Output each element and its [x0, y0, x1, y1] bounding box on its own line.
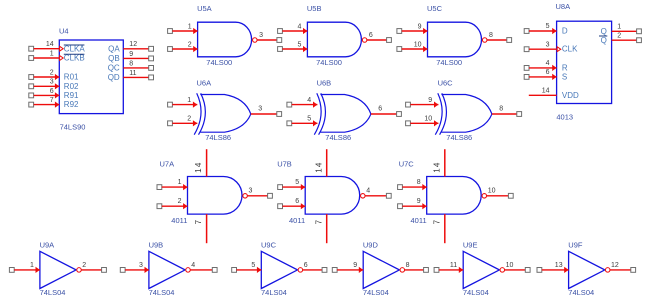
inverter U9D body [363, 251, 399, 288]
power wire U7C pin 7 (bottom) [444, 214, 446, 243]
wire U7B input pin 6 [278, 203, 306, 209]
wire U9C output pin 6 [303, 268, 327, 273]
wire U7B input pin 5 [278, 184, 306, 190]
wire U6B input pin 5 [287, 120, 318, 126]
output bubble U9C [298, 268, 303, 273]
svg-text:11: 11 [450, 262, 457, 269]
svg-text:7: 7 [314, 219, 323, 225]
IC U8A 4013 body [557, 21, 612, 103]
wire U5A input pin 1 [168, 28, 198, 34]
svg-text:7: 7 [194, 219, 203, 225]
svg-text:R91: R91 [64, 91, 79, 100]
svg-text:2: 2 [50, 69, 54, 76]
svg-text:74LS90: 74LS90 [60, 123, 86, 132]
svg-text:4: 4 [366, 187, 370, 194]
wire U7B output pin 4 [365, 193, 391, 198]
svg-text:4011: 4011 [289, 216, 305, 225]
svg-text:74LS04: 74LS04 [463, 288, 489, 297]
svg-text:14: 14 [542, 88, 550, 95]
svg-text:QA: QA [108, 45, 120, 54]
output bubble U7B [361, 194, 366, 199]
svg-text:10: 10 [506, 262, 514, 269]
svg-text:6: 6 [546, 69, 550, 76]
svg-text:8: 8 [489, 32, 493, 39]
inverter U9C body [261, 251, 297, 288]
svg-text:4011: 4011 [171, 216, 187, 225]
NAND gate U7B body [305, 177, 360, 215]
svg-text:5: 5 [297, 41, 301, 48]
svg-text:U7C: U7C [399, 160, 415, 169]
svg-text:QB: QB [108, 54, 120, 63]
wire U5B output pin 6 [367, 38, 392, 43]
wire U5C input pin 9 [397, 28, 428, 34]
svg-text:CLK: CLK [562, 45, 578, 54]
wire U6B output pin 6 [371, 112, 402, 117]
svg-text:5: 5 [251, 262, 255, 269]
svg-text:QD: QD [108, 73, 120, 82]
IC U4 74LS90 body [59, 40, 123, 114]
svg-text:U7A: U7A [160, 160, 175, 169]
svg-text:4: 4 [546, 60, 550, 67]
svg-text:6: 6 [369, 32, 373, 39]
svg-text:74LS00: 74LS00 [316, 58, 342, 67]
power wire U7B pin 7 (bottom) [326, 214, 328, 243]
svg-text:6: 6 [378, 106, 382, 113]
svg-text:74LS04: 74LS04 [568, 288, 594, 297]
inverter U9B body [149, 251, 185, 288]
svg-text:14: 14 [314, 161, 323, 172]
svg-text:1: 1 [30, 262, 34, 269]
svg-text:U8A: U8A [556, 2, 571, 11]
wire U4 pin 9 to terminal [123, 56, 153, 61]
svg-text:10: 10 [424, 116, 432, 123]
svg-text:U7B: U7B [277, 160, 292, 169]
svg-text:9: 9 [418, 23, 422, 30]
wire U8A pin 4 [524, 65, 556, 71]
svg-text:5: 5 [546, 23, 550, 30]
svg-text:1: 1 [187, 97, 191, 104]
svg-text:9: 9 [417, 198, 421, 205]
svg-text:5: 5 [307, 116, 311, 123]
wire U9A input pin 1 [9, 267, 40, 273]
svg-text:U5A: U5A [197, 4, 212, 13]
svg-text:U6B: U6B [317, 79, 332, 88]
svg-text:74LS86: 74LS86 [325, 133, 351, 142]
wire U7A input pin 2 [157, 203, 188, 209]
output bubble U9E [500, 268, 505, 273]
wire U5C output pin 8 [487, 38, 512, 43]
svg-text:4: 4 [297, 23, 301, 30]
svg-text:2: 2 [178, 198, 182, 205]
svg-text:9: 9 [428, 97, 432, 104]
output bubble U7A [243, 194, 248, 199]
svg-text:1: 1 [188, 23, 192, 30]
wire U4 pin 1 with terminal [29, 56, 63, 61]
output bubble U9D [400, 268, 405, 273]
XOR gate U6B body [314, 93, 371, 134]
svg-text:6: 6 [304, 262, 308, 269]
svg-text:2: 2 [617, 32, 621, 39]
NAND gate U5B body [307, 22, 361, 57]
output bubble U9A [77, 268, 82, 273]
wire U8A pin 5 [524, 28, 556, 34]
power wire U7B pin 14 (top) [326, 149, 328, 176]
svg-text:R02: R02 [64, 82, 79, 91]
svg-text:4011: 4011 [411, 216, 427, 225]
wire U9F input pin 13 [537, 267, 569, 273]
svg-text:14: 14 [432, 161, 441, 172]
wire U9F output pin 12 [610, 268, 636, 273]
wire U8A pin 6 [524, 74, 556, 80]
wire U4 pin 7 with terminal [29, 102, 60, 108]
NAND gate U5A body [198, 22, 252, 57]
power wire U7C pin 14 (top) [444, 149, 446, 176]
svg-text:12: 12 [611, 262, 619, 269]
output bubble U5C [482, 38, 487, 43]
svg-text:14: 14 [46, 41, 54, 48]
wire U9A output pin 2 [81, 268, 106, 273]
svg-text:74LS04: 74LS04 [40, 288, 66, 297]
svg-text:7: 7 [50, 97, 54, 104]
wire U8A pin 14 [529, 94, 557, 96]
wire U5A input pin 2 [168, 46, 198, 52]
power wire U7A pin 7 (bottom) [206, 214, 208, 243]
XOR gate U6C body [435, 93, 492, 134]
wire U4 pin 8 to terminal [123, 66, 153, 71]
svg-text:74LS04: 74LS04 [363, 288, 389, 297]
svg-text:U9E: U9E [463, 241, 478, 250]
svg-text:74LS04: 74LS04 [261, 288, 287, 297]
XOR gate U6A body [194, 93, 251, 134]
wire U5A output pin 3 [257, 38, 282, 43]
svg-text:D: D [562, 27, 568, 36]
svg-text:3: 3 [139, 262, 143, 269]
svg-text:6: 6 [295, 198, 299, 205]
wire U6B input pin 4 [287, 102, 318, 108]
svg-text:74LS00: 74LS00 [436, 58, 462, 67]
svg-text:8: 8 [499, 106, 503, 113]
svg-text:U9D: U9D [363, 241, 379, 250]
wire U4 pin 14 with terminal [29, 46, 63, 51]
wire U7C output pin 10 [486, 193, 513, 198]
pin name CLKA with overline [64, 44, 86, 53]
svg-text:1: 1 [617, 24, 621, 31]
wire U9B input pin 3 [120, 267, 149, 273]
inverter U9F body [569, 251, 605, 288]
svg-text:U5B: U5B [307, 4, 322, 13]
wire U6C input pin 9 [406, 102, 439, 108]
svg-text:9: 9 [129, 51, 133, 58]
svg-text:U6A: U6A [197, 79, 212, 88]
svg-text:3: 3 [259, 32, 263, 39]
svg-text:13: 13 [555, 262, 563, 269]
output bubble U5A [253, 38, 257, 43]
NAND gate U7A body [188, 177, 243, 215]
svg-text:U5C: U5C [427, 4, 443, 13]
wire U9D input pin 9 [332, 267, 363, 273]
svg-text:CLKB: CLKB [64, 54, 85, 63]
wire U4 pin 11 to terminal [123, 75, 153, 80]
svg-text:3: 3 [258, 106, 262, 113]
svg-text:10: 10 [488, 187, 496, 194]
svg-text:74LS04: 74LS04 [149, 288, 175, 297]
pin name Q-bar with overline [599, 36, 607, 45]
wire U5C input pin 10 [397, 46, 428, 52]
svg-text:8: 8 [417, 179, 421, 186]
svg-text:8: 8 [129, 60, 133, 67]
svg-text:3: 3 [50, 79, 54, 86]
svg-text:U9A: U9A [40, 241, 55, 250]
output bubble U7C [482, 194, 487, 199]
svg-text:5: 5 [295, 179, 299, 186]
svg-text:14: 14 [194, 161, 203, 172]
svg-text:4: 4 [191, 262, 195, 269]
svg-text:R92: R92 [64, 100, 79, 109]
svg-text:1: 1 [50, 50, 54, 57]
svg-text:1: 1 [178, 179, 182, 186]
inverter U9E body [463, 251, 499, 288]
svg-text:4013: 4013 [556, 112, 573, 121]
svg-text:VDD: VDD [562, 91, 579, 100]
wire U9C input pin 5 [232, 267, 262, 273]
wire U9B output pin 4 [190, 268, 217, 273]
pin name CLKB with overline [64, 54, 85, 63]
NAND gate U7C body [427, 177, 482, 215]
svg-text:Q: Q [601, 27, 607, 36]
svg-text:9: 9 [353, 262, 357, 269]
svg-text:8: 8 [406, 262, 410, 269]
svg-text:2: 2 [82, 262, 86, 269]
wire U7A input pin 1 [157, 184, 188, 190]
power wire U7A pin 14 (top) [206, 149, 208, 176]
wire U6A input pin 1 [168, 102, 198, 108]
wire U9E input pin 11 [434, 267, 463, 273]
svg-text:7: 7 [432, 219, 441, 225]
wire U6A output pin 3 [251, 112, 282, 117]
output bubble U9F [605, 268, 610, 273]
wire U4 pin 2 with terminal [29, 74, 60, 80]
svg-text:Q: Q [601, 36, 607, 45]
svg-text:U9F: U9F [568, 241, 583, 250]
svg-text:U6C: U6C [438, 79, 454, 88]
svg-text:S: S [562, 73, 567, 82]
svg-text:QC: QC [108, 63, 120, 72]
svg-text:74LS86: 74LS86 [446, 133, 472, 142]
svg-text:U9C: U9C [261, 241, 277, 250]
wire U7A output pin 3 [247, 193, 272, 198]
wire U9E output pin 10 [504, 268, 530, 273]
svg-text:3: 3 [249, 187, 253, 194]
NAND gate U5C body [428, 22, 482, 57]
svg-text:6: 6 [50, 88, 54, 95]
wire U9D output pin 8 [404, 268, 428, 273]
wire U8A pin 1 to terminal [612, 29, 642, 34]
wire U5B input pin 4 [278, 28, 308, 34]
wire U8A pin 2 to terminal [612, 38, 642, 43]
wire U4 pin 3 with terminal [29, 83, 60, 89]
svg-text:11: 11 [129, 70, 136, 77]
svg-text:2: 2 [187, 116, 191, 123]
svg-text:74LS00: 74LS00 [206, 58, 232, 67]
wire U7C input pin 9 [398, 203, 427, 209]
wire U6C input pin 10 [406, 120, 439, 126]
wire U6A input pin 2 [168, 120, 198, 126]
svg-text:74LS86: 74LS86 [205, 133, 231, 142]
output bubble U9B [186, 268, 191, 273]
output bubble U5B [362, 38, 367, 43]
svg-text:R01: R01 [64, 73, 79, 82]
wire U4 pin 6 with terminal [29, 92, 60, 98]
svg-text:3: 3 [546, 41, 550, 48]
inverter U9A body [40, 251, 76, 288]
svg-text:CLKA: CLKA [64, 44, 86, 53]
svg-text:2: 2 [188, 41, 192, 48]
wire U7C input pin 8 [398, 184, 427, 190]
svg-text:R: R [562, 63, 568, 72]
svg-text:4: 4 [307, 97, 311, 104]
svg-text:U4: U4 [59, 26, 69, 35]
wire U4 pin 12 to terminal [123, 46, 153, 51]
wire U6C output pin 8 [492, 112, 522, 117]
wire U5B input pin 5 [278, 46, 308, 52]
svg-text:U9B: U9B [149, 241, 164, 250]
svg-text:10: 10 [414, 41, 422, 48]
wire U8A pin 3 [524, 47, 561, 52]
svg-text:12: 12 [129, 41, 137, 48]
